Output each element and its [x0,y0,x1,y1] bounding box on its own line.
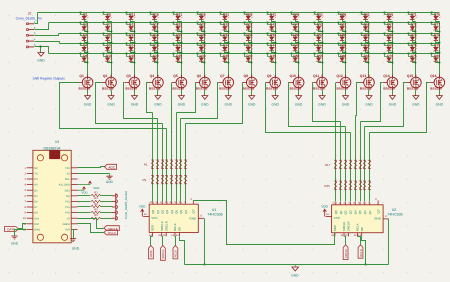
resistor R10 [156,175,159,183]
wire U3 GND right [72,230,74,239]
wire J2 pin1 to row1 [35,13,38,24]
wire column 10 cathode net [298,22,300,78]
LED D44 [267,43,277,54]
transistor Q10 BSS138 [289,74,304,91]
svg-text:SCL: SCL [65,178,71,181]
svg-text:Q7: Q7 [184,209,188,213]
svg-text:Q1: Q1 [339,210,343,214]
svg-text:Q5: Q5 [358,210,362,214]
svg-text:BSS138: BSS138 [383,87,395,91]
LED D50 [291,53,300,64]
wire Q9 source to ground [275,91,277,96]
svg-text:SER: SER [333,225,337,231]
LED D53 [314,33,324,44]
svg-text:Q9: Q9 [267,74,272,78]
ground GND under Q10 [295,96,303,107]
resistor R5 [91,208,101,213]
svg-text:BSS138: BSS138 [149,87,161,91]
wire row5 horizontal net [49,53,440,55]
wire column 6 cathode net [204,22,206,78]
wire Q1 source to ground [87,91,89,96]
wire U2 input column 7 [364,127,366,202]
svg-text:Q3: Q3 [126,74,131,78]
svg-text:RCLK: RCLK [173,223,177,231]
power flag VDD pin4 [78,181,101,190]
svg-text:GND: GND [131,103,139,107]
wire U3 row drive 3 left [78,206,91,208]
transistor Q2 BSS138 [101,74,116,91]
LED D80 [431,53,441,64]
resistor R20 [349,160,352,168]
wire Q15 gate to U2 input 7 [365,83,407,127]
wire row3 horizontal net [59,33,440,35]
svg-text:RST: RST [34,223,40,226]
svg-text:GND: GND [374,217,382,221]
transistor Q11 BSS138 [313,74,328,91]
resistor R2 [156,160,159,168]
wire U1 RCLK to label [175,237,176,246]
LED D49 [291,43,300,54]
wire ground rail horizontal [185,264,389,266]
junction U1 GND rail [204,264,206,266]
svg-text:VCC: VCC [334,216,341,220]
svg-text:Q0: Q0 [334,210,338,214]
LED D13 [126,33,136,44]
LED D23 [173,33,183,44]
svg-text:GND: GND [389,103,397,107]
LED D57 [338,22,347,33]
wire Q8 source to ground [251,91,253,96]
svg-text:SRCLR: SRCLR [164,221,168,231]
J2 pin 5 [27,43,36,48]
svg-text:BSS138: BSS138 [407,87,419,91]
svg-text:VDD: VDD [81,191,88,195]
node RCLK label U1 [173,246,178,259]
LED D2 [80,22,89,33]
op-amp U1 74HC595 body [149,201,198,233]
LED D15 [126,53,136,64]
wire U1 input column 2 [157,119,159,202]
svg-text:D4: D4 [83,44,87,48]
svg-text:GND: GND [365,103,373,107]
LED D31 [220,12,230,22]
svg-text:D6: D6 [34,201,38,204]
svg-text:RCLK: RCLK [108,231,116,235]
svg-text:SRCLK: SRCLK [344,249,348,258]
transistor Q13 BSS138 [359,74,374,91]
svg-text:BSS138: BSS138 [219,87,231,91]
wire U3 RCLK [78,224,104,233]
LED D69 [384,43,394,54]
svg-text:GND: GND [107,103,115,107]
svg-text:D7: D7 [34,206,38,209]
junction U2 OE rail [365,264,367,266]
resistor R5 [170,160,173,168]
svg-text:Q12: Q12 [336,74,343,78]
svg-text:U2: U2 [392,208,397,212]
wire column 9 cathode net [275,22,277,78]
resistor R22 [359,160,362,168]
svg-text:Q13: Q13 [360,74,367,78]
wire U3 GND left [15,230,27,237]
LED D54 [314,43,324,54]
wire U2 GND down to rail [388,219,390,265]
wire U1 SER to DATA label [151,237,153,246]
resistor R18 [339,160,342,168]
power flag VDD U2 [321,204,331,216]
svg-text:BSS138: BSS138 [79,87,91,91]
svg-text:Q2: Q2 [344,210,348,214]
svg-text:TX: TX [34,173,38,176]
svg-text:Q1: Q1 [156,209,160,213]
connector J1 Conn_01x05_Socket [112,191,128,221]
node ADC label [105,164,117,169]
svg-text:Q5: Q5 [173,74,178,78]
svg-text:74HC595: 74HC595 [387,212,402,216]
wire Q4 source to ground [157,91,159,96]
LED D9 [103,43,113,54]
node SRCLK label U3 [104,226,119,231]
svg-text:RCLK: RCLK [174,250,178,258]
svg-text:BSS138: BSS138 [125,87,137,91]
resistor R7 [179,160,182,168]
LED D30 [197,53,206,64]
transistor Q14 BSS138 [383,74,398,91]
svg-text:P52: P52 [65,201,70,204]
wire column 13 cathode net [368,22,370,78]
wire Q2 gate to U1 input 3 [96,83,163,124]
svg-text:R17: R17 [325,163,331,167]
wire Q5 gate to U1 input 5 [171,83,173,113]
LED D68 [384,33,394,44]
svg-text:74HC595: 74HC595 [207,212,222,216]
LED D12 [126,22,136,33]
LED D55 [314,53,324,64]
LED D77 [431,22,441,33]
svg-text:OE: OE [360,227,364,231]
svg-text:GND: GND [84,103,92,107]
svg-text:P51: P51 [65,206,70,209]
LED D19 [150,43,159,54]
resistor R11 [161,175,164,183]
U2 pin SRCLK [340,221,346,237]
wire Q7 gate to U1 input 7 [181,83,219,119]
LED D20 [150,53,159,64]
U1 pin SRCLK [158,221,164,237]
ground GND under Q2 [107,96,115,107]
LED D17 [150,22,159,33]
wire Q10 source to ground [298,91,300,96]
wire U1 input column 6 [176,113,178,202]
svg-text:DB188194: DB188194 [44,147,61,151]
svg-text:BSS138: BSS138 [196,87,208,91]
transistor Q15 BSS138 [406,74,421,91]
wire Q16 gate to U2 input 8 [370,83,430,133]
svg-text:GND: GND [11,242,19,246]
ground GND under Q8 [248,96,256,107]
wire U1 input column 4 [166,129,168,202]
resistor R15 [179,175,182,183]
wire column 16 cathode net [439,22,441,78]
svg-text:GND: GND [318,103,326,107]
LED D70 [384,53,394,64]
wire Q11 source to ground [322,91,324,96]
LED D67 [384,22,394,33]
transistor Q16 BSS138 [430,74,445,91]
svg-text:5V: 5V [67,173,70,176]
resistor R23 [363,160,366,168]
wire row2 horizontal net [49,22,440,24]
transistor Q6 BSS138 [195,74,210,91]
svg-text:U3: U3 [55,140,59,144]
svg-text:BSS138: BSS138 [102,87,114,91]
wire column 1 cathode net [87,22,89,78]
wire U1 OE to ground rail [180,237,185,265]
svg-text:GS1: GS1 [65,189,71,192]
wire U3 row drive 5 left [78,218,91,220]
J2 pin 4 [27,37,36,42]
wire U1 input column 5 [171,113,173,202]
label U1 designator [207,208,222,217]
wire U3 row drive 2 right [101,201,113,203]
svg-text:GND2: GND2 [63,223,71,226]
wire U3 to ADC label [78,167,105,168]
svg-text:Q3: Q3 [349,210,353,214]
resistor R16 [184,175,187,183]
svg-text:GND: GND [225,103,233,107]
U3 right pins [59,167,78,232]
ground GND under Q3 [131,96,139,107]
transistor Q7 BSS138 [219,74,234,91]
wire Q16 source to ground [439,91,441,96]
wire U3 row drive 3 right [101,206,113,208]
svg-text:BSS138: BSS138 [360,87,372,91]
resistor R6 [91,214,101,220]
svg-text:D3: D3 [83,33,87,37]
svg-text:R9: R9 [142,178,146,182]
wire J2 pin5 to ground [40,47,42,53]
svg-text:RCLK: RCLK [359,249,363,257]
wire Q6 gate to U1 input 6 [177,83,196,113]
svg-text:R1: R1 [144,163,148,167]
LED D39 [244,43,253,54]
svg-text:BSS138: BSS138 [290,87,302,91]
LED D1 [80,12,89,22]
resistor R1 [151,160,154,168]
resistor R3 [161,160,164,168]
transistor Q1 BSS138 [78,74,93,91]
wire column 15 cathode net [415,22,417,78]
wire column 7 cathode net [228,22,230,78]
LED D64 [361,43,370,54]
LED D43 [267,33,277,44]
LED D63 [361,33,370,44]
LED D32 [220,22,230,33]
svg-text:GND: GND [178,103,186,107]
wire Q14 gate to U2 input 6 [361,83,383,122]
svg-text:GND: GND [72,247,80,251]
svg-text:Q3: Q3 [165,209,169,213]
svg-text:D1: D1 [83,12,87,16]
resistor R29 [354,181,357,189]
LED D73 [408,33,417,44]
node RCLK label U3 [104,230,118,235]
LED D66 [384,12,394,22]
wire J2 pin4 to row4 [35,42,60,44]
svg-text:U1: U1 [212,208,217,212]
wire U3 row drive 1 left [78,195,91,197]
wire Q2 source to ground [111,91,113,96]
wire column 8 cathode net [251,22,253,78]
wire Q7 source to ground [228,91,230,96]
J2 pin 2 [27,26,36,31]
power flag VDD pin5 [78,187,89,195]
svg-text:BSS138: BSS138 [313,87,325,91]
LED D26 [197,12,206,22]
LED D24 [173,43,183,54]
ground GND under Q1 [84,96,92,107]
LED D71 [408,12,417,22]
resistor R26 [339,181,342,189]
svg-text:D6: D6 [107,12,111,16]
wire column 14 cathode net [392,22,394,78]
ground GND under Q16 [436,96,444,107]
svg-text:Q6: Q6 [179,209,183,213]
LED D62 [361,22,370,33]
svg-text:Q4: Q4 [170,209,174,213]
svg-text:A1/_2403: A1/_2403 [59,184,71,187]
wire column 5 cathode net [181,22,183,78]
LED D37 [244,22,253,33]
LED D48 [291,33,300,44]
LED D47 [291,22,300,33]
svg-text:Q7': Q7' [376,209,380,214]
LED D11 [126,12,136,22]
wire U2 input column 3 [345,127,347,202]
svg-text:Q11: Q11 [313,74,319,78]
svg-text:RX: RX [34,178,38,181]
connector J2 Conn_01x05_Pin [16,12,42,21]
LED D51 [314,12,324,22]
wire Q14 source to ground [392,91,394,96]
wire Q9 gate to U2 input 4 [266,83,351,133]
svg-text:Q7': Q7' [192,209,196,214]
LED D41 [267,12,277,22]
svg-text:R2: R2 [94,192,98,195]
U1 pin OE [176,227,182,237]
wire U2 input column 6 [360,122,362,202]
svg-text:GND: GND [106,180,114,184]
transistor Q3 BSS138 [125,74,140,91]
svg-text:BSS138: BSS138 [266,87,278,91]
junction J2 pin5 node [40,46,42,48]
resistor R2 [91,192,101,197]
wire U2 SRCLK to label [345,237,346,245]
svg-text:BSS138: BSS138 [243,87,255,91]
wire J2 pin5 to row5 [35,47,49,54]
svg-text:SRCLR: SRCLR [347,221,351,231]
wire column 2 cathode net [111,22,113,78]
U2 pin SER [331,225,337,237]
svg-text:TX0: TX0 [65,167,70,170]
U2 pin OE [358,227,364,237]
svg-text:Conn_01x05_Socket: Conn_01x05_Socket [124,191,128,219]
wire U2 OE to ground rail [362,237,366,265]
svg-text:Q7: Q7 [220,74,225,78]
svg-text:VDD: VDD [139,204,146,208]
LED D4 [80,43,89,54]
svg-text:5V0: 5V0 [65,229,70,232]
power flag VDD U1 [139,204,149,216]
svg-text:BSS138: BSS138 [172,87,184,91]
J2 pin 3 [27,32,36,37]
svg-text:SRCLK: SRCLK [160,221,164,231]
svg-text:D5: D5 [34,195,38,198]
ground GND under U3 right [70,239,80,251]
U1 pin 9 QH' [190,198,195,213]
svg-text:R4: R4 [94,203,98,206]
LED D8 [103,33,113,44]
transistor Q12 BSS138 [336,74,351,91]
LED D29 [197,43,206,54]
svg-text:GND: GND [201,103,209,107]
svg-text:R3: R3 [94,197,98,200]
LED D59 [338,43,347,54]
resistor R31 [363,181,366,189]
svg-text:DATA: DATA [149,250,153,257]
LED D33 [220,33,230,44]
U2 pin 9 QH' [375,198,380,213]
wire U1 input column 3 [162,124,164,202]
wire U3 row drive 4 right [101,212,113,214]
U1 pin 8 GND stub [198,215,204,219]
svg-text:GND: GND [272,103,280,107]
wire Q1 gate to U1 input 4 [60,83,167,129]
node DATA label U3 [4,227,18,232]
U2 pin SRCLR [345,221,351,237]
node SRCLK label U1 [161,246,166,261]
wire U2 input column 4 [350,133,352,202]
U1 pin RCLK [171,223,177,237]
wire Q13 gate to U2 input 5 [356,83,360,116]
svg-text:Q10: Q10 [289,74,296,78]
ground GND under Q11 [318,96,326,107]
svg-text:GND: GND [154,103,162,107]
ground GND under Q14 [389,96,397,107]
svg-text:Q2: Q2 [160,209,164,213]
svg-text:Q5: Q5 [174,209,178,213]
svg-text:VDD: VDD [93,186,100,190]
LED D35 [220,53,230,64]
wire U3 pin to ground mid [78,173,110,175]
LED D79 [431,43,441,54]
ground GND under Q6 [201,96,209,107]
wire U1 input column 8 [185,124,187,202]
resistor R13 [170,175,173,183]
LED D75 [408,53,417,64]
resistor R12 [165,175,168,183]
LED D72 [408,22,417,33]
ground GND below J2 [37,53,45,63]
svg-text:ADC: ADC [108,166,115,170]
wire Q15 source to ground [415,91,417,96]
svg-text:SRCLK: SRCLK [161,249,165,258]
LED D16 [150,12,159,22]
svg-text:P50: P50 [65,212,70,215]
svg-text:D7: D7 [107,23,111,27]
wire U3 row drive 1 right [101,195,113,197]
svg-text:VCC: VCC [151,216,158,220]
